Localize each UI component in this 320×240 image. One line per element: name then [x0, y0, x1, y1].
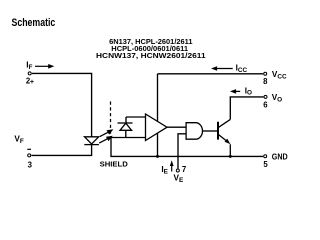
wire photodiode bottom stub: [125, 130, 127, 137]
svg-text:5: 5: [263, 160, 268, 169]
wire photodiode top stub: [125, 117, 127, 123]
wire pin2 to LED anode: [32, 73, 92, 136]
svg-text:7: 7: [182, 165, 186, 174]
shield dashed line: [110, 102, 112, 138]
light arrow 1: [100, 129, 114, 136]
svg-text:3: 3: [28, 160, 33, 169]
wire VCC drop: [157, 74, 159, 157]
wire gate output to transistor base: [203, 130, 218, 132]
IO current arrow: [230, 89, 240, 94]
pin 2 terminal: [28, 72, 31, 75]
op-amp U1: [146, 114, 168, 141]
pin 8 terminal: [264, 72, 267, 75]
wire photodiode top to amp: [126, 116, 146, 118]
svg-text:+: +: [30, 77, 34, 86]
light arrow 2: [99, 136, 113, 143]
pin 7 terminal: [176, 169, 179, 172]
wire gate enable input to pin7: [178, 134, 186, 169]
IF current arrow: [35, 64, 54, 69]
wire VO pin6 to collector: [230, 97, 263, 120]
label - polarity: [27, 148, 31, 150]
transistor Q1: [218, 119, 231, 156]
LED D1: [84, 137, 99, 145]
svg-text:6: 6: [263, 101, 268, 110]
svg-text:8: 8: [263, 77, 268, 86]
svg-text:HCNW137, HCNW2601/2611: HCNW137, HCNW2601/2611: [96, 53, 206, 60]
junction at emitter / GND rail: [229, 155, 232, 158]
wire VCC rail pin8 to drop: [158, 73, 264, 75]
ICC current arrow: [211, 66, 233, 71]
pin 5 terminal: [264, 155, 267, 158]
svg-text:SHIELD: SHIELD: [100, 159, 128, 168]
photodiode D2: [118, 123, 133, 130]
svg-text:Schematic: Schematic: [12, 17, 56, 29]
svg-text:GND: GND: [272, 152, 288, 162]
wire LED cathode to pin3: [31, 145, 91, 156]
wire amp output to gate: [167, 126, 186, 128]
AND gate U2: [186, 123, 202, 140]
IE current arrow: [170, 160, 174, 171]
pin 6 terminal: [264, 95, 267, 98]
wire GND rail: [111, 138, 263, 157]
wire photodiode bottom rail to amp: [111, 137, 146, 139]
junction at VCC drop / GND rail: [156, 155, 159, 158]
pin 3 terminal: [28, 154, 31, 157]
